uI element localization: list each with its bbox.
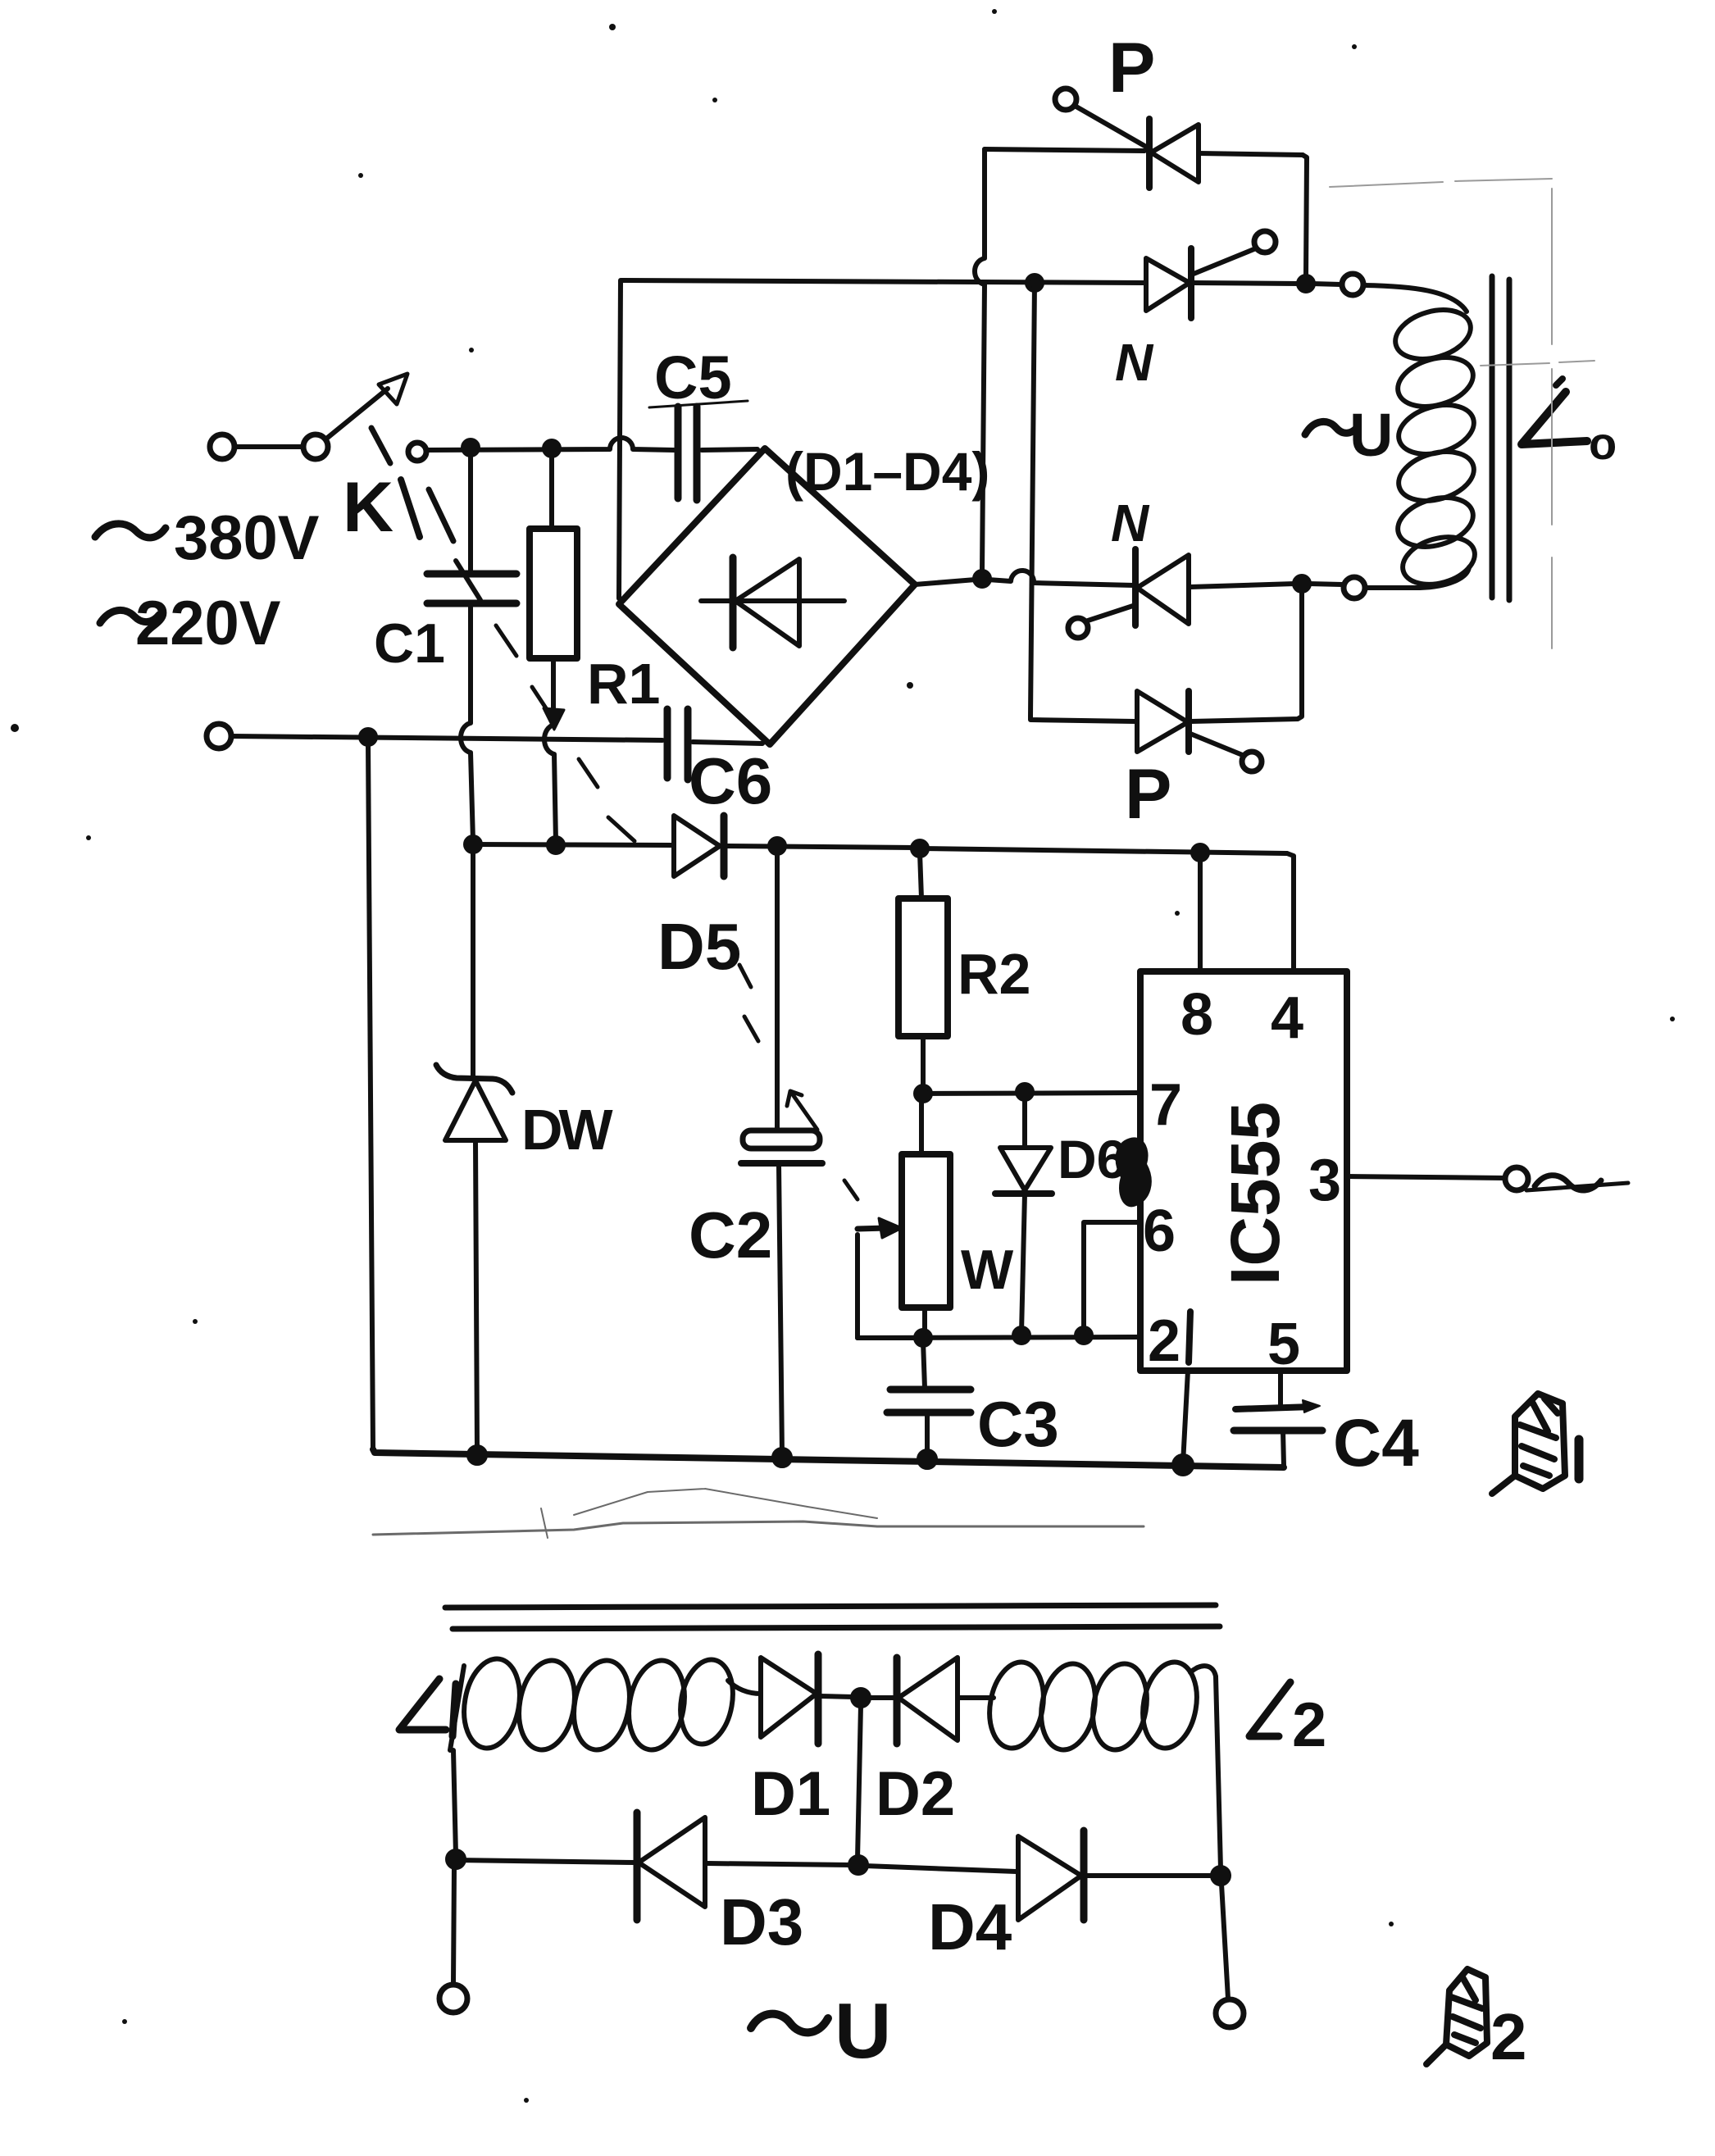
svg-text:380V: 380V [174,503,320,573]
potentiometer W [919,1094,924,1154]
switch K1 pivot [303,434,328,459]
svg-text:N: N [1111,494,1150,553]
left rail down [368,742,373,1449]
row 4 loop [1030,716,1135,721]
svg-text:DW: DW [521,1098,613,1162]
resistor R1 [549,454,554,529]
zener DW [471,851,475,1077]
input terminal upper [210,434,234,459]
svg-text:o: o [1589,417,1617,469]
svg-text:K: K [343,468,393,547]
resistor R2 [920,853,921,898]
gate N lower [1068,618,1088,638]
diode D3 [634,1813,641,1920]
svg-text:R2: R2 [958,942,1030,1006]
sub bus to pin 2 region [857,1337,1138,1338]
inductor L2 [983,1658,1203,1754]
left leg + terminal [453,1750,456,1854]
svg-text:U: U [1349,401,1393,469]
label L2 [1249,1682,1290,1736]
node [853,1690,869,1706]
svg-text:3: 3 [1308,1148,1341,1213]
svg-text:U: U [835,1987,891,2075]
wire [235,444,303,449]
dc bus (D5 rail) [473,844,672,845]
core lines [445,1605,1216,1608]
ground rail [373,1449,1284,1467]
bus [865,1866,1017,1872]
svg-text:D4: D4 [928,1890,1012,1963]
svg-text:IC555: IC555 [1217,1102,1294,1285]
svg-text:W: W [961,1239,1014,1301]
gate P bottom [1190,734,1244,756]
right leg + terminal [1216,1676,1221,1869]
wire to pin 7 [923,1093,1138,1094]
node [361,730,375,744]
svg-text:(D1–D4): (D1–D4) [785,441,989,502]
svg-text:D2: D2 [876,1759,955,1829]
gate N upper [1254,231,1276,252]
core [1490,276,1495,598]
svg-text:P: P [1125,755,1171,834]
label ~380V [95,524,166,538]
row 2 rail [621,280,1144,283]
capacitor C4 [1278,1371,1283,1407]
transformer primary terminals [1342,274,1363,295]
faint construction lines [1330,179,1594,648]
thyristor N lower [1132,549,1139,625]
row 1 wire [985,149,1144,151]
svg-text:C5: C5 [654,343,732,412]
label ~U [1305,421,1358,434]
riser B [1030,283,1035,716]
label ~U [751,2014,828,2033]
svg-text:2: 2 [1292,1690,1326,1760]
thyristor N upper [1146,258,1190,311]
svg-text:C1: C1 [374,612,445,675]
op-amp IC555 box [1140,971,1347,1371]
capacitor C3 [923,1341,925,1388]
lower bus [456,1860,635,1863]
svg-text:7: 7 [1149,1072,1182,1138]
inductor L1 [450,1666,464,1750]
pin 2 ground lead [1183,1371,1188,1463]
svg-text:D5: D5 [657,910,741,983]
pin 6 wire [1084,1222,1138,1333]
node C2 tap [770,839,785,853]
wire lower input [207,724,231,748]
switch K1 contact circle [408,443,426,461]
label ~220V [100,610,159,623]
diode D4 [1018,1836,1081,1920]
node R2 tap [912,841,927,856]
label L1 [399,1679,456,1736]
switch K1 arrowhead [379,374,407,404]
riser from bridge-left up to thyristor rail [619,280,621,598]
corner down to pin4 [1287,853,1294,971]
svg-text:8: 8 [1180,982,1213,1048]
svg-text:C3: C3 [977,1388,1059,1460]
pin8 riser [1198,853,1203,971]
figure-2 mark [1446,1969,1487,2056]
label Lo [1522,392,1587,444]
svg-text:2: 2 [1148,1308,1180,1374]
svg-text:R1: R1 [587,652,660,716]
node junction C1 [463,440,478,455]
switch K1 contact tick [371,428,390,463]
bus continues [920,848,1287,853]
center tap wire [857,1705,861,1859]
svg-text:C6: C6 [689,744,772,817]
svg-text:N: N [1115,333,1154,392]
svg-text:D3: D3 [720,1885,803,1958]
svg-text:4: 4 [1271,985,1303,1051]
ink blot [1117,1138,1151,1206]
diode D5 [674,816,720,876]
svg-text:C4: C4 [1333,1406,1419,1481]
winding ~U [1364,285,1467,312]
wire with hop over bridge-left riser [426,438,674,450]
node pin8 tap [1193,845,1208,860]
svg-text:D1: D1 [751,1759,830,1829]
switch K1 arm [325,389,388,439]
capacitor C1 [468,453,473,571]
node junction R1 [544,441,559,456]
figure-1 mark [1515,1394,1565,1489]
pin 3 output wire [1347,1176,1505,1178]
diode D2 [867,1695,894,1700]
svg-text:220V: 220V [135,589,281,658]
output terminal [1505,1167,1528,1190]
diode D1 [761,1658,817,1737]
svg-text:2: 2 [1490,2000,1527,2073]
thyristor P top [1146,119,1153,188]
svg-text:C2: C2 [689,1199,772,1271]
svg-text:P: P [1108,29,1155,107]
output ~ mark [1535,1176,1601,1190]
diode D6 [1022,1098,1027,1148]
capacitor C5 [675,407,682,498]
row 3 wire from bridge [915,580,976,584]
thyristor P bottom [1137,691,1188,752]
capacitor C6 [664,709,671,778]
bridge rectifier (D1-D4) [619,448,915,744]
gate P top [1055,89,1076,110]
riser A (top P wire to bridge output) with hop [975,149,985,572]
capacitor C2 [775,853,780,1130]
stray scratch line between figures [373,1489,1144,1538]
svg-text:6: 6 [1143,1199,1176,1264]
ganged-adjust dashed link [532,687,857,1199]
svg-text:5: 5 [1267,1312,1300,1377]
